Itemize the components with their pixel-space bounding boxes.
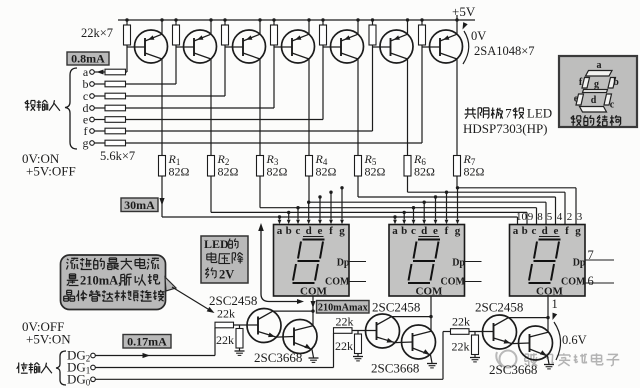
wire collector 2 down xyxy=(210,59,212,156)
resistor 5.6k row g xyxy=(105,140,126,146)
svg-text:c: c xyxy=(610,100,615,111)
transistor 2SA1048 #6 xyxy=(380,30,413,63)
transistor 2SC2458 xyxy=(483,315,517,349)
svg-text:c: c xyxy=(411,225,416,237)
svg-text:COM: COM xyxy=(325,277,350,288)
svg-text:+5V: +5V xyxy=(452,4,476,19)
resistor R1 82ohm xyxy=(159,156,166,177)
svg-text:2: 2 xyxy=(567,211,573,223)
wire drop b display 3 xyxy=(526,212,528,224)
stub COM display 2 xyxy=(465,281,482,283)
svg-text:LED: LED xyxy=(527,106,552,121)
svg-text:22k: 22k xyxy=(452,315,470,329)
resistor 22k pull-down xyxy=(239,325,241,329)
wire Q2 emitter to ground xyxy=(294,343,312,350)
transistor 2SC3668 xyxy=(519,326,553,360)
svg-text:d: d xyxy=(421,225,427,237)
svg-text:d: d xyxy=(306,225,312,237)
wire R7 to bus level xyxy=(456,176,458,188)
transistor 2SA1048 #1 xyxy=(135,30,168,63)
svg-text:10: 10 xyxy=(516,211,528,223)
wire drop f display 3 xyxy=(564,192,566,224)
wire drop d display 3 xyxy=(545,202,547,224)
svg-text:82Ω: 82Ω xyxy=(414,165,435,179)
wire drop e display 2 xyxy=(434,195,437,198)
svg-text:e: e xyxy=(318,225,323,237)
svg-text:g: g xyxy=(83,136,89,150)
svg-text:30mA: 30mA xyxy=(124,198,155,212)
wire drop e display 3 xyxy=(555,197,557,225)
svg-text:a: a xyxy=(392,225,398,237)
label 共阴极7段LED xyxy=(467,108,469,115)
svg-text:82Ω: 82Ω xyxy=(169,165,190,179)
svg-text:5.6k×7: 5.6k×7 xyxy=(100,149,135,163)
svg-text:1: 1 xyxy=(552,297,558,311)
svg-text:+5V:OFF: +5V:OFF xyxy=(26,164,76,179)
svg-text:b: b xyxy=(286,225,292,237)
svg-text:2SC2458: 2SC2458 xyxy=(475,300,523,315)
label 段输入 xyxy=(26,100,29,111)
svg-text:g: g xyxy=(575,225,581,237)
wire drop a display 2 xyxy=(393,215,396,218)
resistor 22k pull-up #2 xyxy=(175,20,177,25)
wire row f to base column xyxy=(126,130,373,132)
resistor 22k base series xyxy=(451,329,470,335)
wire row g to base column xyxy=(126,142,423,144)
resistor R2 82ohm xyxy=(208,156,215,177)
svg-text:e: e xyxy=(574,94,579,105)
7-seg display 2 HDSP7303 xyxy=(389,225,465,297)
resistor 5.6k row c xyxy=(105,93,126,99)
svg-text:7: 7 xyxy=(588,248,594,262)
wire drop g display 1 xyxy=(340,186,343,189)
wire drop f display 2 xyxy=(445,191,448,194)
transistor 2SC3668 xyxy=(283,320,317,354)
svg-text:g: g xyxy=(455,225,461,237)
resistor 5.6k row a xyxy=(105,69,126,75)
7-seg display 3 HDSP7303 xyxy=(510,225,586,297)
resistor 22k pull-up #6 xyxy=(372,20,374,25)
svg-text:8: 8 xyxy=(537,211,543,223)
wire row d to base column xyxy=(126,107,275,109)
svg-text:0.8mA: 0.8mA xyxy=(71,52,105,66)
wire drop f display 1 xyxy=(329,191,332,194)
wire collector 4 down xyxy=(308,59,310,156)
wire collectors to COM xyxy=(392,316,432,318)
resistor 22k pull-up #3 xyxy=(224,20,226,25)
wire collector 1 down xyxy=(161,59,163,156)
wire R5 to bus level xyxy=(357,176,359,197)
transistor 2SA1048 #3 xyxy=(233,30,266,63)
wire collector 7 down xyxy=(456,59,458,156)
wire DG1 xyxy=(95,367,333,369)
transistor 2SC2458 xyxy=(247,309,281,343)
svg-text:2SC3668: 2SC3668 xyxy=(489,362,537,377)
svg-text:2V: 2V xyxy=(219,268,234,282)
7-seg display 1 HDSP7303 xyxy=(274,225,350,297)
resistor 22k pull-down xyxy=(357,331,359,335)
resistor R5 82ohm xyxy=(355,156,362,177)
resistor 22k pull-up #5 xyxy=(322,20,324,25)
svg-text:2SC3668: 2SC3668 xyxy=(254,350,302,365)
ground xyxy=(427,363,437,365)
wire drop b display 2 xyxy=(403,211,406,214)
stub COM display 3 xyxy=(585,282,614,284)
svg-text:a: a xyxy=(277,225,283,237)
svg-text:COM: COM xyxy=(561,277,586,288)
svg-text:9: 9 xyxy=(528,211,534,223)
svg-text:a: a xyxy=(513,225,519,237)
wire R6 to bus level xyxy=(407,176,409,192)
resistor 5.6k row e xyxy=(105,117,126,123)
wire drop a display 3 xyxy=(517,217,519,225)
svg-text:d: d xyxy=(591,95,597,106)
transistor 2SC2458 xyxy=(366,314,400,348)
svg-text:7: 7 xyxy=(505,106,512,121)
wire DG0 xyxy=(95,378,443,380)
svg-text:c: c xyxy=(296,225,301,237)
balloon arrow xyxy=(172,287,212,312)
svg-text:b: b xyxy=(613,77,619,88)
svg-text:82Ω: 82Ω xyxy=(365,165,386,179)
svg-text:a: a xyxy=(597,60,602,71)
resistor 22k base series xyxy=(334,328,353,334)
svg-text:d: d xyxy=(542,225,548,237)
svg-text:82Ω: 82Ω xyxy=(464,165,485,179)
resistor 22k pull-up #1 xyxy=(126,20,128,25)
svg-text:HDSP7303(HP): HDSP7303(HP) xyxy=(463,121,548,136)
resistor 5.6k row b xyxy=(105,81,126,87)
svg-text:22k: 22k xyxy=(452,340,470,354)
speech balloon xyxy=(61,255,166,310)
svg-text:COM: COM xyxy=(300,286,328,298)
current arrow 0.8mA on row a xyxy=(97,70,104,75)
label 0.8mA box xyxy=(67,52,109,65)
ground xyxy=(309,357,319,359)
wire row e to base column xyxy=(126,119,324,121)
wire drop g display 3 xyxy=(575,188,577,225)
resistor R6 82ohm xyxy=(404,156,411,177)
wire collectors to COM xyxy=(509,317,549,319)
segment glyph 8 xyxy=(586,71,613,77)
svg-text:0.17mA: 0.17mA xyxy=(127,334,167,348)
svg-text:82Ω: 82Ω xyxy=(218,165,239,179)
wire drop d display 1 xyxy=(307,201,310,204)
svg-text:LED: LED xyxy=(204,237,229,251)
stub Dp display 3 xyxy=(585,259,614,261)
wire drop d display 2 xyxy=(423,201,426,204)
svg-text:c: c xyxy=(532,225,537,237)
svg-text:0.6V: 0.6V xyxy=(562,333,587,347)
label 30mA box xyxy=(121,198,158,212)
svg-text:82Ω: 82Ω xyxy=(267,165,288,179)
svg-text:COM: COM xyxy=(441,277,466,288)
label 段的结构 xyxy=(572,116,575,126)
label 210mAmax box xyxy=(317,301,370,314)
brace digit inputs xyxy=(56,351,66,385)
wire R4 to bus level xyxy=(308,176,310,202)
wire drop a display 1 xyxy=(278,215,281,218)
watermark text 张飞实战电子 xyxy=(525,353,529,355)
transistor 2SA1048 #5 xyxy=(331,30,364,63)
svg-text:g: g xyxy=(339,225,345,237)
ground xyxy=(353,356,363,358)
wire drop g display 2 xyxy=(456,186,459,189)
digit segments display 1 xyxy=(303,239,325,241)
resistor 5.6k row d xyxy=(105,105,126,111)
svg-text:0V: 0V xyxy=(471,29,486,43)
svg-text:COM: COM xyxy=(416,286,444,298)
svg-text:f: f xyxy=(565,225,569,237)
svg-text:22k×7: 22k×7 xyxy=(81,26,113,40)
svg-text:g: g xyxy=(594,79,599,90)
svg-text:3: 3 xyxy=(577,211,583,223)
wire R1 to bus level xyxy=(161,176,163,217)
transistor 2SA1048 #7 xyxy=(430,30,463,63)
transistor 2SA1048 #4 xyxy=(282,30,315,63)
wire Q2 emitter to ground xyxy=(530,349,548,356)
svg-text:COM: COM xyxy=(536,286,564,298)
svg-text:22k: 22k xyxy=(217,307,235,321)
svg-text:2SA1048×7: 2SA1048×7 xyxy=(474,44,535,58)
wire row a to base column xyxy=(126,71,128,73)
digit segments display 2 xyxy=(418,239,440,241)
svg-text:Dp: Dp xyxy=(573,257,586,268)
svg-text:4: 4 xyxy=(557,211,563,223)
segment structure box xyxy=(559,56,637,127)
svg-text:22k: 22k xyxy=(216,333,234,347)
wire drop c display 3 xyxy=(536,208,538,225)
wire drop b display 1 xyxy=(287,211,290,214)
svg-text:5: 5 xyxy=(547,211,553,223)
wire row b to base column xyxy=(126,83,177,85)
resistor 22k pull-up #4 xyxy=(273,20,275,25)
wire collector 5 down xyxy=(357,59,359,156)
COM current arrow xyxy=(311,301,316,308)
svg-text:210mAmax: 210mAmax xyxy=(318,302,369,313)
wire R2 to bus level xyxy=(210,176,212,212)
svg-text:Dp: Dp xyxy=(337,257,350,268)
resistor R4 82ohm xyxy=(306,156,313,177)
label 0.17mA box xyxy=(123,335,171,349)
balloon text xyxy=(67,259,69,260)
ground xyxy=(470,357,480,359)
wire row c to base column xyxy=(126,95,226,97)
svg-text:2SC3668: 2SC3668 xyxy=(371,361,419,376)
annotation arrow to display1 and COM xyxy=(261,230,298,302)
resistor 5.6k row f xyxy=(105,128,126,134)
wire Q2 emitter to ground xyxy=(413,348,431,355)
0.6V arc annotation xyxy=(554,322,561,360)
svg-text:+5V:ON: +5V:ON xyxy=(26,332,71,347)
wire drop e display 1 xyxy=(318,195,321,198)
svg-text:b: b xyxy=(522,225,528,237)
resistor R3 82ohm xyxy=(257,156,264,177)
svg-text:f: f xyxy=(445,225,449,237)
svg-text:22k: 22k xyxy=(335,339,353,353)
stub Dp display 1 xyxy=(349,261,366,263)
svg-text:6: 6 xyxy=(588,274,594,288)
transistor 2SC3668 xyxy=(402,325,436,359)
wire DG2 xyxy=(95,355,215,357)
resistor 22k pull-up #7 xyxy=(421,20,423,25)
wire drop c display 1 xyxy=(296,206,299,209)
current arrow 30mA down xyxy=(159,198,164,206)
wire collectors to COM xyxy=(273,310,313,312)
digit segments display 3 xyxy=(539,239,561,241)
svg-text:e: e xyxy=(433,225,438,237)
svg-text:2SC2458: 2SC2458 xyxy=(372,300,420,315)
ground xyxy=(544,364,554,366)
wire collector 3 down xyxy=(259,59,261,156)
svg-text:22k: 22k xyxy=(336,315,354,329)
brace segment inputs xyxy=(65,68,77,149)
resistor 22k base series xyxy=(215,322,234,328)
watermark logo xyxy=(496,351,516,368)
stub Dp display 2 xyxy=(465,261,482,263)
wire drop c display 2 xyxy=(412,206,415,209)
label 位输入 xyxy=(18,363,20,374)
resistor R7 82ohm xyxy=(454,156,461,177)
svg-text:b: b xyxy=(401,225,407,237)
svg-text:82Ω: 82Ω xyxy=(316,165,337,179)
resistor 22k pull-down xyxy=(474,332,476,336)
svg-text:e: e xyxy=(554,225,559,237)
+5V rail xyxy=(118,19,475,21)
svg-text:210mA,: 210mA, xyxy=(80,273,121,287)
svg-text:Dp: Dp xyxy=(452,257,465,268)
wire R3 to bus level xyxy=(259,176,261,208)
svg-text:f: f xyxy=(329,225,333,237)
label box LED voltage drop xyxy=(201,236,248,283)
stub COM display 1 xyxy=(349,281,366,283)
ground xyxy=(235,350,245,352)
wire collector 6 down xyxy=(407,59,409,156)
transistor 2SA1048 #2 xyxy=(184,30,217,63)
